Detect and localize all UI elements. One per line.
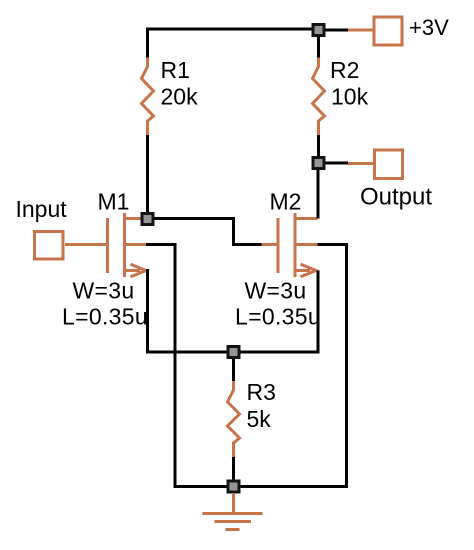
label M2 W: [245, 278, 307, 304]
label R2 value: [330, 57, 369, 110]
junction: output node: [312, 156, 326, 170]
label Input: [16, 196, 68, 222]
svg-text:R2: R2: [330, 57, 359, 83]
wire: M2 source to common source node: [234, 271, 319, 353]
svg-text:L=0.35u: L=0.35u: [62, 304, 148, 330]
wire: M2 gate orange lead: [262, 243, 279, 246]
svg-text:Output: Output: [360, 184, 432, 211]
junction: common source node: [227, 345, 241, 359]
svg-text:10k: 10k: [331, 84, 369, 110]
svg-text:M1: M1: [98, 189, 130, 215]
ground: [203, 493, 263, 530]
svg-text:L=0.35u: L=0.35u: [235, 304, 321, 330]
label +3V: [409, 15, 449, 40]
svg-text:R3: R3: [247, 379, 276, 405]
wire: M1 drain node to M2 gate: [154, 219, 262, 245]
label Output: [360, 184, 432, 211]
label M1 L: [62, 304, 148, 330]
svg-text:5k: 5k: [247, 406, 272, 432]
port Output: [325, 150, 403, 179]
transistor M1: [108, 213, 147, 277]
junction: +3V top node: [312, 23, 326, 37]
label M2 L: [235, 304, 321, 330]
svg-text:+3V: +3V: [409, 15, 449, 40]
svg-text:Input: Input: [16, 196, 68, 222]
wire: top +3V net horizontal with R1 top lead: [148, 29, 319, 58]
label R1 value: [161, 57, 199, 110]
label M1 W: [73, 278, 135, 304]
label M2: [270, 189, 302, 215]
resistor R3: [228, 381, 240, 457]
port Input: [35, 232, 107, 260]
junction: M1 drain node: [141, 212, 155, 226]
wire: M1 bulk down to ground net: [146, 245, 234, 487]
svg-text:20k: 20k: [161, 84, 199, 110]
label R3 value: [247, 379, 276, 432]
svg-text:R1: R1: [161, 57, 190, 83]
resistor R1: [142, 58, 154, 136]
svg-text:M2: M2: [270, 189, 302, 215]
wire: R1 bottom black lead to M1 drain node: [146, 135, 149, 213]
wire: M2 bulk down to ground net: [234, 245, 347, 487]
svg-text:W=3u: W=3u: [73, 278, 135, 304]
label M1: [98, 189, 130, 215]
resistor R2: [313, 58, 325, 136]
port +3V: [348, 17, 402, 45]
wire: R2 bottom black lead to output node: [317, 135, 320, 157]
wire: R2 top black lead: [317, 29, 320, 58]
transistor M2: [278, 213, 318, 277]
wire: M2 drain vertical to output node: [317, 163, 320, 219]
wire: junction to +3V port stub: [325, 29, 348, 32]
svg-text:W=3u: W=3u: [245, 278, 307, 304]
junction: ground node: [227, 480, 241, 494]
wire: M1 source to common source node: [146, 271, 234, 353]
wire: R3 top black lead: [232, 352, 235, 381]
wire: R3 bottom black lead to ground node: [232, 457, 235, 487]
